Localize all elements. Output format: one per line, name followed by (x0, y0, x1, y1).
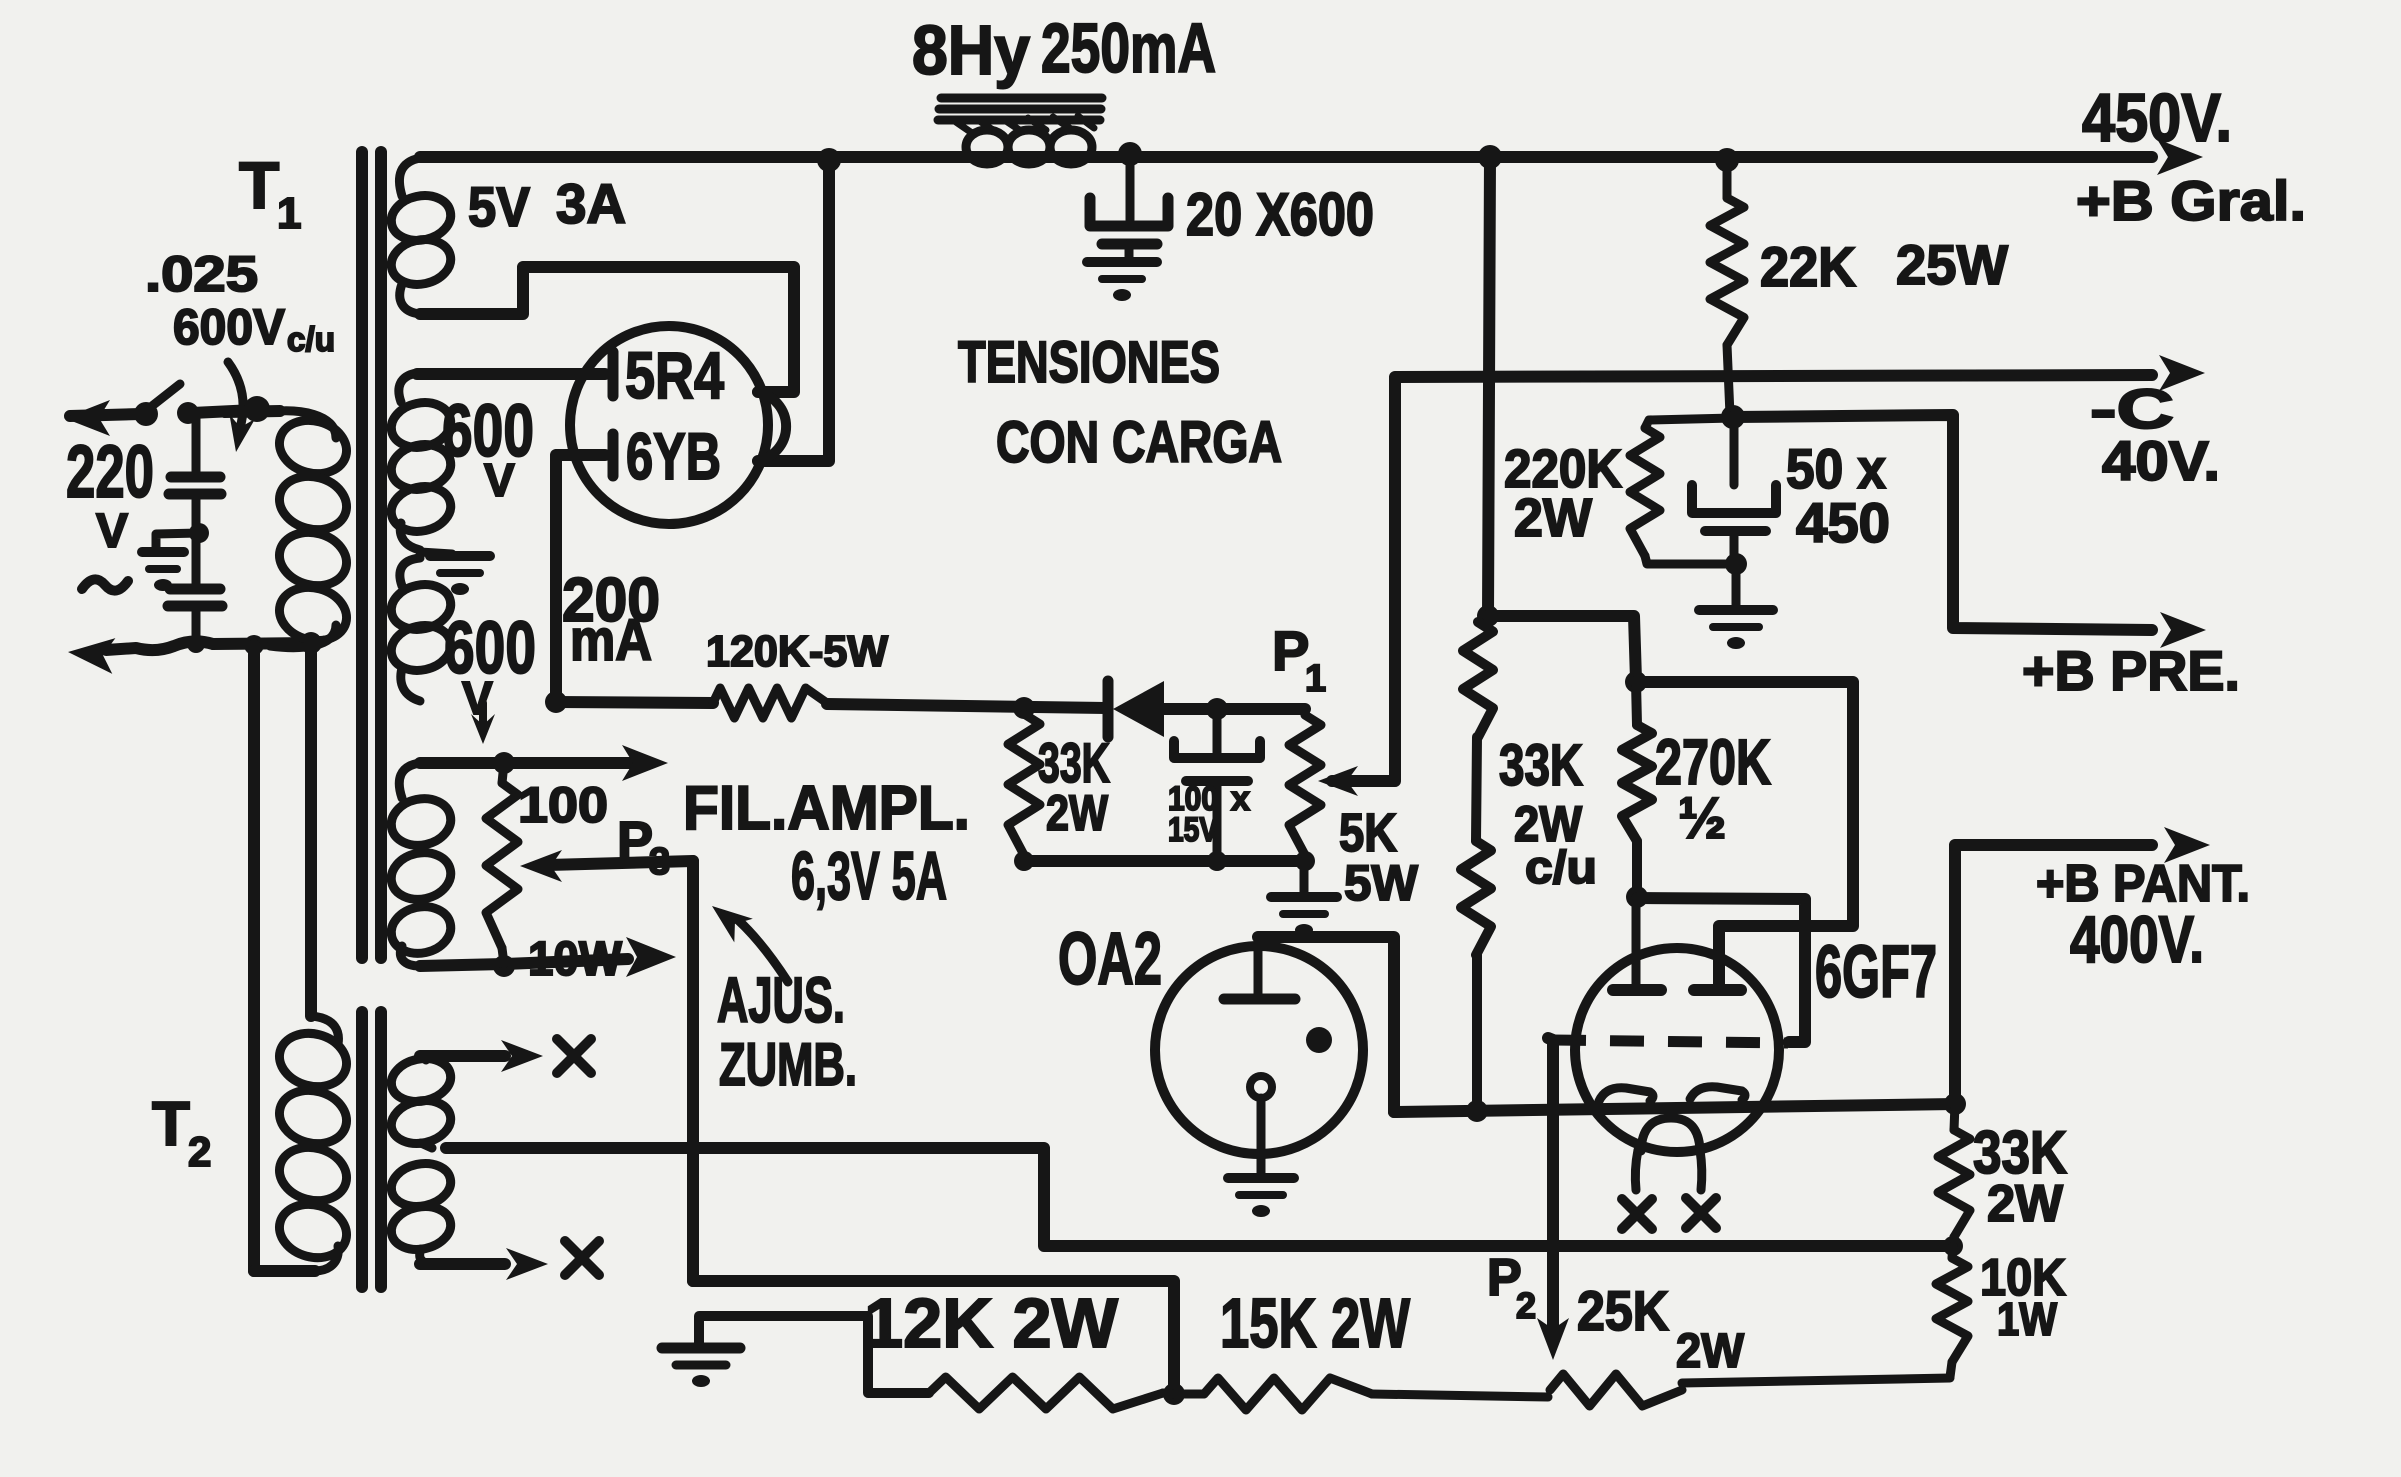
label 25K 2W (1577, 1279, 1745, 1378)
svg-text:2W: 2W (1676, 1325, 1745, 1378)
label -C (2090, 377, 2174, 440)
svg-text:20 X600: 20 X600 (1186, 181, 1374, 248)
svg-text:15V: 15V (1168, 811, 1218, 849)
callout arrow for .025 caps (228, 362, 255, 452)
transformer T1 5V 3A winding (387, 158, 455, 314)
wire 600V-bottom to 120K (556, 702, 713, 703)
resistor 100 10W hum pot (486, 763, 518, 964)
node junction top bus at x829 (817, 148, 841, 172)
tube V3 grid line (dashed) (1552, 1040, 1788, 1043)
label P1 (1272, 619, 1326, 700)
wire OA2 anode to cathode bus (1258, 937, 1394, 1112)
wire grid node to plate line (1637, 898, 1805, 1042)
node junction at 100uF top (1206, 698, 1228, 720)
wire cap midpoint to ground (156, 533, 199, 549)
svg-text:2W: 2W (1987, 1175, 2064, 1233)
svg-text:mA: mA (570, 608, 652, 673)
label .025 600V c/u capacitor values (145, 246, 335, 359)
label 5V 3A winding (468, 172, 626, 238)
node junction cathode bus right (1944, 1093, 1966, 1115)
svg-text:450: 450 (1796, 491, 1890, 554)
label FIL.AMPL. (683, 774, 970, 843)
wire hum-balance line (693, 1281, 1174, 1393)
svg-text:3A: 3A (556, 172, 626, 235)
node junction 270K top (1625, 671, 1647, 693)
wire +B PANT feed (1955, 845, 2152, 1104)
wire filament winding top lead (420, 757, 504, 769)
svg-text:V: V (462, 672, 493, 724)
ground 50x450 capacitor (1699, 610, 1773, 649)
ground T1 center tap (420, 552, 490, 595)
arrow 450V output (2157, 139, 2203, 175)
capacitor C3 20x600 (1090, 157, 1168, 258)
tube V3 6GF7 envelope (1575, 948, 1779, 1152)
label 10W hum pot (528, 933, 623, 986)
label TENSIONES CON CARGA (958, 330, 1282, 475)
wire 220V return segment (213, 643, 311, 644)
transformer T2 secondary winding (387, 1053, 454, 1264)
arrow +B PRE output (2160, 612, 2206, 648)
wire 15R4 cathode to top bus (758, 162, 829, 461)
svg-text:100: 100 (518, 777, 608, 833)
svg-text:c/u: c/u (287, 321, 335, 359)
svg-text:V: V (484, 454, 515, 506)
svg-text:2: 2 (188, 1128, 211, 1175)
svg-text:CON CARGA: CON CARGA (996, 410, 1282, 475)
transformer T1 600V lower winding (387, 558, 455, 701)
capacitor C2 .025/600V lower (168, 536, 222, 641)
svg-text:6,3V 5A: 6,3V 5A (791, 838, 947, 914)
tube V1 cathode cap bump (757, 392, 786, 461)
svg-text:6GF7: 6GF7 (1815, 930, 1937, 1013)
node junction mains caps midpoint (189, 523, 209, 543)
resistor 270K 1/2W (1622, 682, 1652, 897)
transformer T1 primary winding (267, 411, 353, 648)
wire P1 bottom to ground (1300, 861, 1309, 894)
label 33K 2W c/u (1499, 733, 1597, 893)
svg-text:+B Gral.: +B Gral. (2076, 169, 2306, 232)
wire cathode bus (1394, 1104, 1955, 1112)
node junction bias bottom left (1014, 851, 1034, 871)
label 40V. (2102, 429, 2220, 492)
node junction T1 primary bottom (300, 632, 322, 654)
arrow P2 wiper (1537, 1318, 1569, 1360)
transformer T1 6.3V filament winding (387, 763, 455, 966)
wire lineB to 270K branch (1488, 616, 1636, 680)
svg-text:5W: 5W (1344, 855, 1419, 911)
ground P1 bottom (1271, 897, 1337, 936)
label 200 mA (562, 566, 660, 673)
resistor 33K 2W divider (1938, 1104, 1970, 1246)
label P3 (617, 811, 670, 883)
svg-text:2W: 2W (1046, 785, 1109, 841)
svg-text:2: 2 (1516, 1285, 1536, 1326)
label +B PANT. (2036, 855, 2250, 913)
label 33K 2W bias (1038, 731, 1110, 841)
resistor 10K 1W divider (1936, 1246, 1968, 1377)
svg-text:x: x (1231, 780, 1250, 818)
label +B PRE. (2022, 639, 2240, 702)
tube V3 cathode 1 (1599, 1088, 1653, 1101)
tube V3 cathode 2 (1690, 1087, 1745, 1100)
ground mains cap midpoint (142, 552, 184, 591)
svg-text:c/u: c/u (1525, 841, 1597, 893)
wire bias network bottom (1024, 855, 1305, 867)
svg-text:22K: 22K (1760, 235, 1856, 298)
svg-text:6YB: 6YB (626, 419, 721, 493)
svg-text:33K: 33K (1499, 733, 1583, 798)
tube V3 plate 2 pin (1694, 984, 1741, 996)
label 400V. (2070, 902, 2204, 976)
tube V3 heater (1641, 1118, 1700, 1151)
svg-text:OA2: OA2 (1058, 917, 1162, 1000)
node junction bias bottom mid (1207, 851, 1227, 871)
potentiometer P2 wiper line (1548, 1038, 1553, 1332)
node junction 270K bottom / grid (1626, 886, 1648, 908)
svg-text:2W: 2W (1514, 488, 1592, 548)
svg-text:8Hy: 8Hy (912, 11, 1030, 89)
svg-text:10W: 10W (528, 933, 623, 986)
svg-text:1W: 1W (1997, 1293, 2058, 1345)
label 6,3V 5A (791, 838, 947, 914)
node junction bus at choke output (1118, 142, 1142, 166)
node junction 22K bottom (1721, 405, 1745, 429)
svg-text:220: 220 (66, 430, 154, 513)
node junction filament top (493, 752, 515, 774)
label T2 transformer (152, 1090, 211, 1175)
svg-text:+B PRE.: +B PRE. (2022, 639, 2240, 702)
wire 270K feedback box (1636, 682, 1853, 988)
wire diode to P1 (1164, 703, 1305, 715)
node junction cap bottom on 220V return (187, 635, 205, 653)
arrow 600V lower output mark (471, 703, 495, 744)
svg-text:5V: 5V (468, 175, 530, 238)
svg-text:T: T (152, 1090, 190, 1159)
label 100 hum pot (518, 777, 608, 833)
wire -C 40V line (1395, 375, 2152, 779)
tube V2 gas dot (1306, 1027, 1332, 1053)
node junction bus at 22K (1715, 148, 1739, 172)
potentiometer P1 5K 5W element (1289, 709, 1321, 855)
wire 220V line input top lead with arrow (64, 400, 254, 436)
arrow T2 secondary X top (420, 1040, 543, 1072)
resistor 15K 2W (1174, 1378, 1548, 1410)
svg-text:25W: 25W (1896, 233, 2008, 296)
label 50 x 450 (1786, 437, 1890, 554)
arrow +B PANT output (2164, 827, 2210, 863)
wire line B from bus (1488, 157, 1490, 616)
svg-text:1: 1 (1305, 658, 1326, 700)
svg-text:250mA: 250mA (1041, 9, 1216, 87)
label X heater pin 2 (1686, 1198, 1716, 1228)
label P2 (1487, 1249, 1536, 1326)
label 10K 1W (1980, 1249, 2066, 1345)
tube V3 plate 1 pin (1613, 897, 1661, 990)
svg-text:40V.: 40V. (2102, 429, 2220, 492)
tube V1 plate 1 pin (417, 352, 613, 396)
node junction line B bottom (1477, 605, 1499, 627)
label 6GF7 (1815, 930, 1937, 1013)
wire 33K c/u bottom lead (1472, 955, 1482, 1110)
label 220V mains voltage (66, 430, 154, 558)
arrow filament output bottom (504, 937, 676, 977)
node junction bottom bus at divider (1943, 1236, 1963, 1256)
svg-text:120K-5W: 120K-5W (706, 627, 888, 676)
label 100x 15V (1168, 780, 1250, 849)
wire T1 primary top lead (225, 411, 280, 412)
label OA2 (1058, 917, 1162, 1000)
svg-text:5K: 5K (1339, 803, 1397, 863)
tube V2 cathode (1250, 1076, 1272, 1174)
capacitor C1 .025/600V upper (169, 413, 221, 530)
label 220V tilde (82, 579, 128, 590)
transformer T1 600V upper winding (387, 373, 455, 550)
node junction bias bottom right (1295, 851, 1315, 871)
resistor 33K 2W c/u upper (1463, 622, 1493, 737)
svg-text:400V.: 400V. (2070, 902, 2204, 976)
label 220K 2W (1504, 439, 1622, 548)
wire 220V bottom lead with arrow (68, 638, 213, 674)
label 20 X600 (1186, 181, 1374, 248)
wire between 33K c/u sections (1476, 737, 1477, 841)
svg-text:½: ½ (1678, 786, 1726, 851)
label 120K-5W (706, 627, 888, 676)
inductor L1 choke 8Hy core (938, 98, 1102, 133)
label tube V1 6YB (626, 419, 721, 493)
node junction at 33K top (1013, 697, 1035, 719)
node junction T2 feed on 220V return (244, 635, 264, 655)
svg-text:ZUMB.: ZUMB. (719, 1031, 857, 1098)
label 600V lower winding (444, 606, 536, 724)
ground 20x600 capacitor (1087, 262, 1157, 301)
potentiometer P3 wiper arrow (520, 850, 693, 882)
resistor 12K 2W (929, 1377, 1174, 1409)
tube V1 15R4/6YB rectifier envelope (570, 326, 768, 524)
svg-text:25K: 25K (1577, 1279, 1669, 1342)
wire 5V winding to 15R4 filament (step) (420, 267, 794, 392)
label 600V upper winding (442, 389, 534, 506)
resistor 120K-5W (713, 688, 827, 718)
node junction 33K c/u bottom (1466, 1100, 1488, 1122)
transformer T2 core (362, 1012, 381, 1287)
label 33K 2W divider (1973, 1119, 2067, 1233)
ground OA2 cathode (1228, 1178, 1294, 1217)
svg-text:TENSIONES: TENSIONES (958, 330, 1220, 395)
arrow -C output (2159, 355, 2205, 391)
label 8Hy 250mA (912, 9, 1216, 89)
potentiometer P2 25K 2W element (1550, 1374, 1950, 1406)
resistor 33K 2W c/u lower (1461, 841, 1491, 955)
svg-text:450V.: 450V. (2082, 80, 2232, 156)
label 450V. (2082, 80, 2232, 156)
wire 50uF to ground (1732, 564, 1741, 607)
transformer T1 core (362, 152, 381, 958)
svg-text:12K 2W: 12K 2W (864, 1284, 1118, 1362)
label T1 transformer (239, 148, 301, 238)
label X bottom (565, 1241, 599, 1275)
label 15K 2W (1220, 1284, 1410, 1362)
svg-text:T: T (239, 148, 279, 222)
tube V2 OA2 envelope (1155, 946, 1363, 1154)
wire T2 tap bus (446, 1148, 1953, 1246)
wire top bus 450V rail (420, 151, 2152, 163)
resistor 33K 2W bias (1008, 714, 1040, 855)
arrow T2 secondary X bottom (420, 1248, 548, 1280)
svg-text:600V: 600V (173, 299, 286, 355)
resistor 220K 2W bleeder (1630, 418, 1733, 564)
svg-text:P: P (1272, 619, 1309, 682)
inductor L1 choke 8Hy windings (966, 130, 1092, 164)
arrow filament output top (504, 745, 668, 781)
wire +B PRE feed (1733, 415, 2152, 630)
wire T2 primary feed left (248, 645, 260, 1271)
svg-text:1: 1 (277, 189, 301, 238)
capacitor C4 100x15V bias (1174, 709, 1260, 861)
label ZUMB. (719, 1031, 857, 1098)
label X top (557, 1039, 591, 1073)
tube V2 anode pin (1224, 937, 1295, 999)
svg-text:FIL.AMPL.: FIL.AMPL. (683, 774, 970, 843)
label +B Gral. (2076, 169, 2306, 232)
resistor 22K 25W (1710, 160, 1744, 415)
wire hum-balance vertical (687, 861, 699, 1281)
switch S1 mains switch (134, 384, 199, 426)
svg-text:5R4: 5R4 (625, 338, 724, 412)
label 12K 2W (864, 1284, 1118, 1362)
node junction 600V bottom / 120K (545, 691, 567, 713)
diode D1 bias rectifier (1108, 681, 1164, 737)
transformer T2 primary winding (254, 1016, 353, 1271)
node junction 50uF bottom (1725, 553, 1747, 575)
label X heater pin 1 (1622, 1199, 1652, 1229)
tube V3 heater pins (1635, 1150, 1701, 1190)
label AJUS. (717, 964, 845, 1036)
label tube V1 15R4 (625, 338, 724, 412)
label 270K 1/2 (1655, 726, 1771, 851)
node junction bus at line B (1478, 145, 1502, 169)
label 22K 25W (1760, 233, 2008, 298)
potentiometer P1 wiper arrow (1318, 766, 1395, 796)
wire 120K to diode (827, 704, 1106, 708)
svg-text:15K 2W: 15K 2W (1220, 1284, 1410, 1362)
tube V1 plate 2 pin (557, 434, 613, 476)
callout arrow AJUS ZUMB (712, 906, 788, 982)
node junction 12K/15K (1163, 1383, 1185, 1405)
node junction 220V top at cap (244, 396, 270, 422)
wire T2 primary feed right (305, 643, 317, 1016)
label 5K 5W (1339, 803, 1419, 911)
svg-text:.025: .025 (145, 246, 258, 302)
svg-text:V: V (96, 505, 128, 558)
capacitor C5 50x450 (1692, 417, 1776, 564)
wire filament winding bottom lead (420, 964, 504, 966)
wire plate2 to 600V bottom (550, 455, 562, 700)
ground bottom divider (662, 1316, 929, 1393)
node junction filament bottom (493, 955, 515, 977)
